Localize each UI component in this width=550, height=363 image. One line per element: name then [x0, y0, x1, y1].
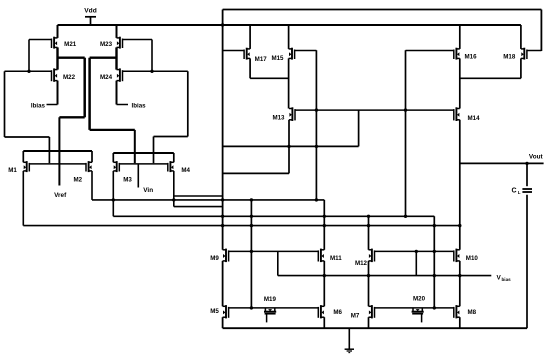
svg-text:L: L: [518, 190, 521, 195]
wire M4 source down: [173, 171, 175, 207]
wire M23 drain to Vdd rail: [116, 25, 118, 38]
wire frame left column upper: [222, 10, 224, 250]
wire M8 source to ground rail: [459, 317, 461, 328]
Ibias terminal right: [117, 102, 147, 109]
svg-text:M11: M11: [330, 255, 342, 262]
wire M3-M4 gate row: [119, 163, 168, 165]
wire capacitor top lead: [526, 163, 528, 186]
junction gate row / mid column: [433, 306, 436, 309]
wire down to M2 gate row: [48, 137, 50, 163]
svg-text:C: C: [511, 187, 516, 194]
wire M18 source down: [520, 58, 522, 78]
transistor M24: [117, 68, 188, 81]
wire M12 source to M7 drain: [368, 261, 370, 306]
junction M21/M22 gates: [27, 70, 30, 73]
wire M23 gate down to M24 gate row: [151, 40, 153, 72]
wire Vbias rail: [278, 275, 492, 277]
wire M15 source to M13 drain: [288, 58, 290, 108]
wire Vbias drop from M9 gate row: [277, 251, 279, 275]
wire M6 source to ground rail: [323, 317, 325, 328]
svg-text:M15: M15: [271, 55, 284, 62]
transistor M15: [289, 48, 317, 60]
wire capacitor bottom lead to ground rail: [526, 195, 528, 328]
wire M21 gate down to M22 gate row: [28, 40, 30, 72]
wire Vbias rise to M12-M10 gate row: [415, 251, 417, 275]
wire M15 gate column down: [315, 50, 317, 200]
svg-text:M7: M7: [351, 313, 360, 320]
junction gate row / M9 drain column: [250, 306, 253, 309]
transistor M21: [29, 37, 58, 49]
wire M3 gate feed column: [134, 130, 136, 163]
wire M16-M18 source link: [460, 77, 521, 79]
wire down to M4 gate row: [153, 137, 155, 164]
wire left edge down: [4, 71, 6, 137]
wire M13 source column down: [288, 120, 290, 174]
wire right of M24 down: [187, 71, 189, 136]
svg-text:Vout: Vout: [529, 154, 544, 161]
label CL: [511, 187, 520, 195]
svg-text:M10: M10: [466, 255, 479, 262]
transistor M13: [289, 107, 295, 121]
svg-text:M24: M24: [100, 74, 113, 81]
wire horizontal to M3 gate column: [90, 129, 135, 131]
wire M17 drain to rail: [249, 25, 251, 49]
wire M17-M15 source link: [250, 77, 289, 79]
junction M16 gate column / bus line: [404, 215, 407, 218]
junction Vbias / mid column: [433, 274, 436, 277]
junction Vbias / M7 column: [367, 274, 370, 277]
transistor M23: [117, 37, 153, 49]
label Vbias: [497, 274, 512, 282]
svg-text:M6: M6: [333, 309, 342, 316]
junction Vout / load capacitor: [525, 162, 528, 165]
transistor M18: [521, 48, 542, 60]
wire M5-M6 gate row: [229, 307, 319, 309]
svg-text:M9: M9: [210, 255, 219, 262]
svg-text:M20: M20: [413, 295, 426, 302]
svg-text:Ibias: Ibias: [31, 102, 46, 109]
transistor M11: [318, 249, 324, 263]
svg-text:bias: bias: [502, 277, 512, 282]
wire M24 source to Ibias stub: [116, 81, 118, 105]
wire M15 drain to rail: [288, 25, 290, 49]
wire link frame to M13 column bottom: [223, 172, 289, 174]
wire node between M21 and M22 going right: [58, 57, 85, 59]
svg-text:M2: M2: [73, 176, 82, 183]
junction frame-Vdd rail: [221, 23, 224, 26]
transistor M7: [369, 305, 375, 318]
transistor M2: [86, 161, 92, 172]
transistor M14: [454, 107, 460, 121]
svg-text:M5: M5: [210, 308, 219, 315]
wire M11 source to M6 drain: [323, 261, 325, 306]
transistor M9: [223, 249, 229, 263]
wire M2 drain up: [91, 151, 93, 162]
svg-text:M1: M1: [8, 167, 17, 174]
wire M1 source down: [22, 171, 24, 226]
transistor M8: [454, 305, 460, 318]
wire M14 source down to output: [459, 120, 461, 250]
transistor M1: [23, 161, 29, 172]
wire frame left column bottom: [222, 317, 224, 328]
svg-text:M19: M19: [264, 296, 277, 303]
wire M10 source to M8 drain: [459, 261, 461, 306]
wire M1-M2 drain rail: [23, 150, 92, 152]
wire M7 source to ground rail: [368, 317, 370, 328]
junction Vbias / output column: [458, 274, 461, 277]
transistor M3: [113, 161, 119, 172]
wire M12-M10 gate row: [375, 250, 454, 252]
wire M21 source to M22 drain: [56, 47, 58, 69]
wire M16 source down to M14: [459, 58, 461, 108]
svg-text:M3: M3: [123, 176, 132, 183]
wire Vout rail: [460, 162, 544, 164]
wire M1 drain up: [22, 151, 24, 162]
svg-text:M16: M16: [465, 53, 478, 60]
wire M9-M11 gate row: [229, 250, 319, 252]
wire bus line from M4 source upper: [174, 195, 223, 197]
svg-text:Ibias: Ibias: [132, 102, 147, 109]
wire M3 drain up: [112, 153, 114, 162]
wire M16 gate column down: [405, 50, 407, 216]
svg-text:M21: M21: [64, 41, 77, 48]
wire Vin stub: [137, 164, 139, 188]
wire M16 drain to rail: [459, 25, 461, 49]
junction gate row / mid column: [433, 250, 436, 253]
wire M21 drain to Vdd rail: [57, 25, 59, 38]
wire M7-M8 gate row: [375, 307, 454, 309]
svg-text:Vref: Vref: [54, 192, 67, 199]
junction gate row / Vbias riser: [415, 250, 418, 253]
svg-text:Vin: Vin: [143, 187, 153, 194]
wire riser to M13-M14 gate row: [358, 110, 360, 146]
svg-text:M12: M12: [355, 260, 368, 267]
wire frame right edge to M18 gate: [540, 10, 542, 52]
wire M9 drain column: [250, 200, 252, 308]
wire Vdd rail: [58, 24, 521, 26]
transistor M12: [369, 249, 375, 263]
junction M4 source crossing: [172, 198, 175, 201]
svg-text:M18: M18: [503, 53, 516, 60]
wire left horizontal toward M2 gate: [5, 136, 50, 138]
wire vertical to Vref path: [83, 58, 86, 118]
junction bus end at output column: [458, 224, 461, 227]
capacitor CL: [522, 189, 532, 192]
wire M11 column top: [323, 200, 325, 250]
wire M18 drain from rail end: [520, 25, 522, 49]
junction M13 column / link: [287, 145, 290, 148]
wire frame left column lower: [222, 261, 224, 306]
svg-text:M8: M8: [468, 309, 477, 316]
wire M3 source down: [112, 171, 114, 216]
wire M17 source down: [249, 58, 251, 78]
junction M15 gate column / link: [315, 145, 318, 148]
transistor M22: [5, 68, 58, 81]
svg-text:M14: M14: [468, 115, 481, 122]
wire frame top edge: [223, 9, 542, 11]
transistor M4: [168, 161, 174, 172]
junction frame / bus lines: [221, 198, 224, 201]
transistor M17: [223, 48, 251, 60]
svg-text:M17: M17: [255, 56, 268, 63]
junction bus end at M11 column: [315, 198, 318, 201]
transistor M6: [318, 305, 324, 318]
wire vertical to M3 gate path: [88, 58, 91, 130]
svg-text:M22: M22: [63, 74, 76, 81]
wire bus line from M3 source: [113, 215, 434, 217]
wire M3-M4 drain rail: [113, 152, 174, 154]
wire Vref column: [58, 117, 60, 185]
junction M23/M24 gates: [150, 70, 153, 73]
wire horizontal toward M4 gate: [154, 136, 188, 138]
wire horizontal to Vref column: [59, 116, 84, 118]
wire bottom ground rail: [223, 327, 527, 329]
junction M3 source crossing: [112, 198, 115, 201]
junction gate row / M9 column: [250, 250, 253, 253]
transistor M5: [223, 305, 229, 318]
wire mid column down: [433, 216, 435, 308]
transistor M10: [454, 249, 460, 263]
svg-text:Vdd: Vdd: [84, 7, 96, 14]
wire bus line from M1 source: [23, 225, 460, 227]
junction M9 column / bus: [250, 198, 253, 201]
Vdd supply symbol: [84, 7, 96, 25]
svg-text:M13: M13: [272, 115, 285, 122]
wire link from frame to gate riser: [223, 145, 359, 147]
transistor M19: [264, 308, 276, 323]
junction Vbias / M6 column: [323, 274, 326, 277]
wire M13-M14 gate row: [295, 109, 454, 111]
Ibias terminal left: [31, 102, 58, 109]
wire M1-M2 gate row: [29, 163, 86, 165]
wire M23 source to M24 drain: [115, 47, 117, 69]
transistor M20: [412, 308, 424, 323]
wire bus line from M2 source: [92, 199, 324, 201]
wire M4 drain up: [173, 153, 175, 162]
junction gate row / M16 gate column: [404, 108, 407, 111]
wire M2 source down: [91, 171, 93, 200]
ground symbol: [345, 328, 354, 352]
svg-text:M23: M23: [100, 41, 113, 48]
wire M12 column top: [368, 216, 370, 250]
wire bus line from M4 source lower: [174, 206, 223, 208]
junction gate row / M15 gate column: [315, 108, 318, 111]
wire M22 source to Ibias stub: [57, 81, 59, 105]
transistor M16: [406, 48, 460, 60]
wire node between M23 and M24 going left: [90, 57, 117, 59]
svg-text:M4: M4: [181, 167, 190, 174]
